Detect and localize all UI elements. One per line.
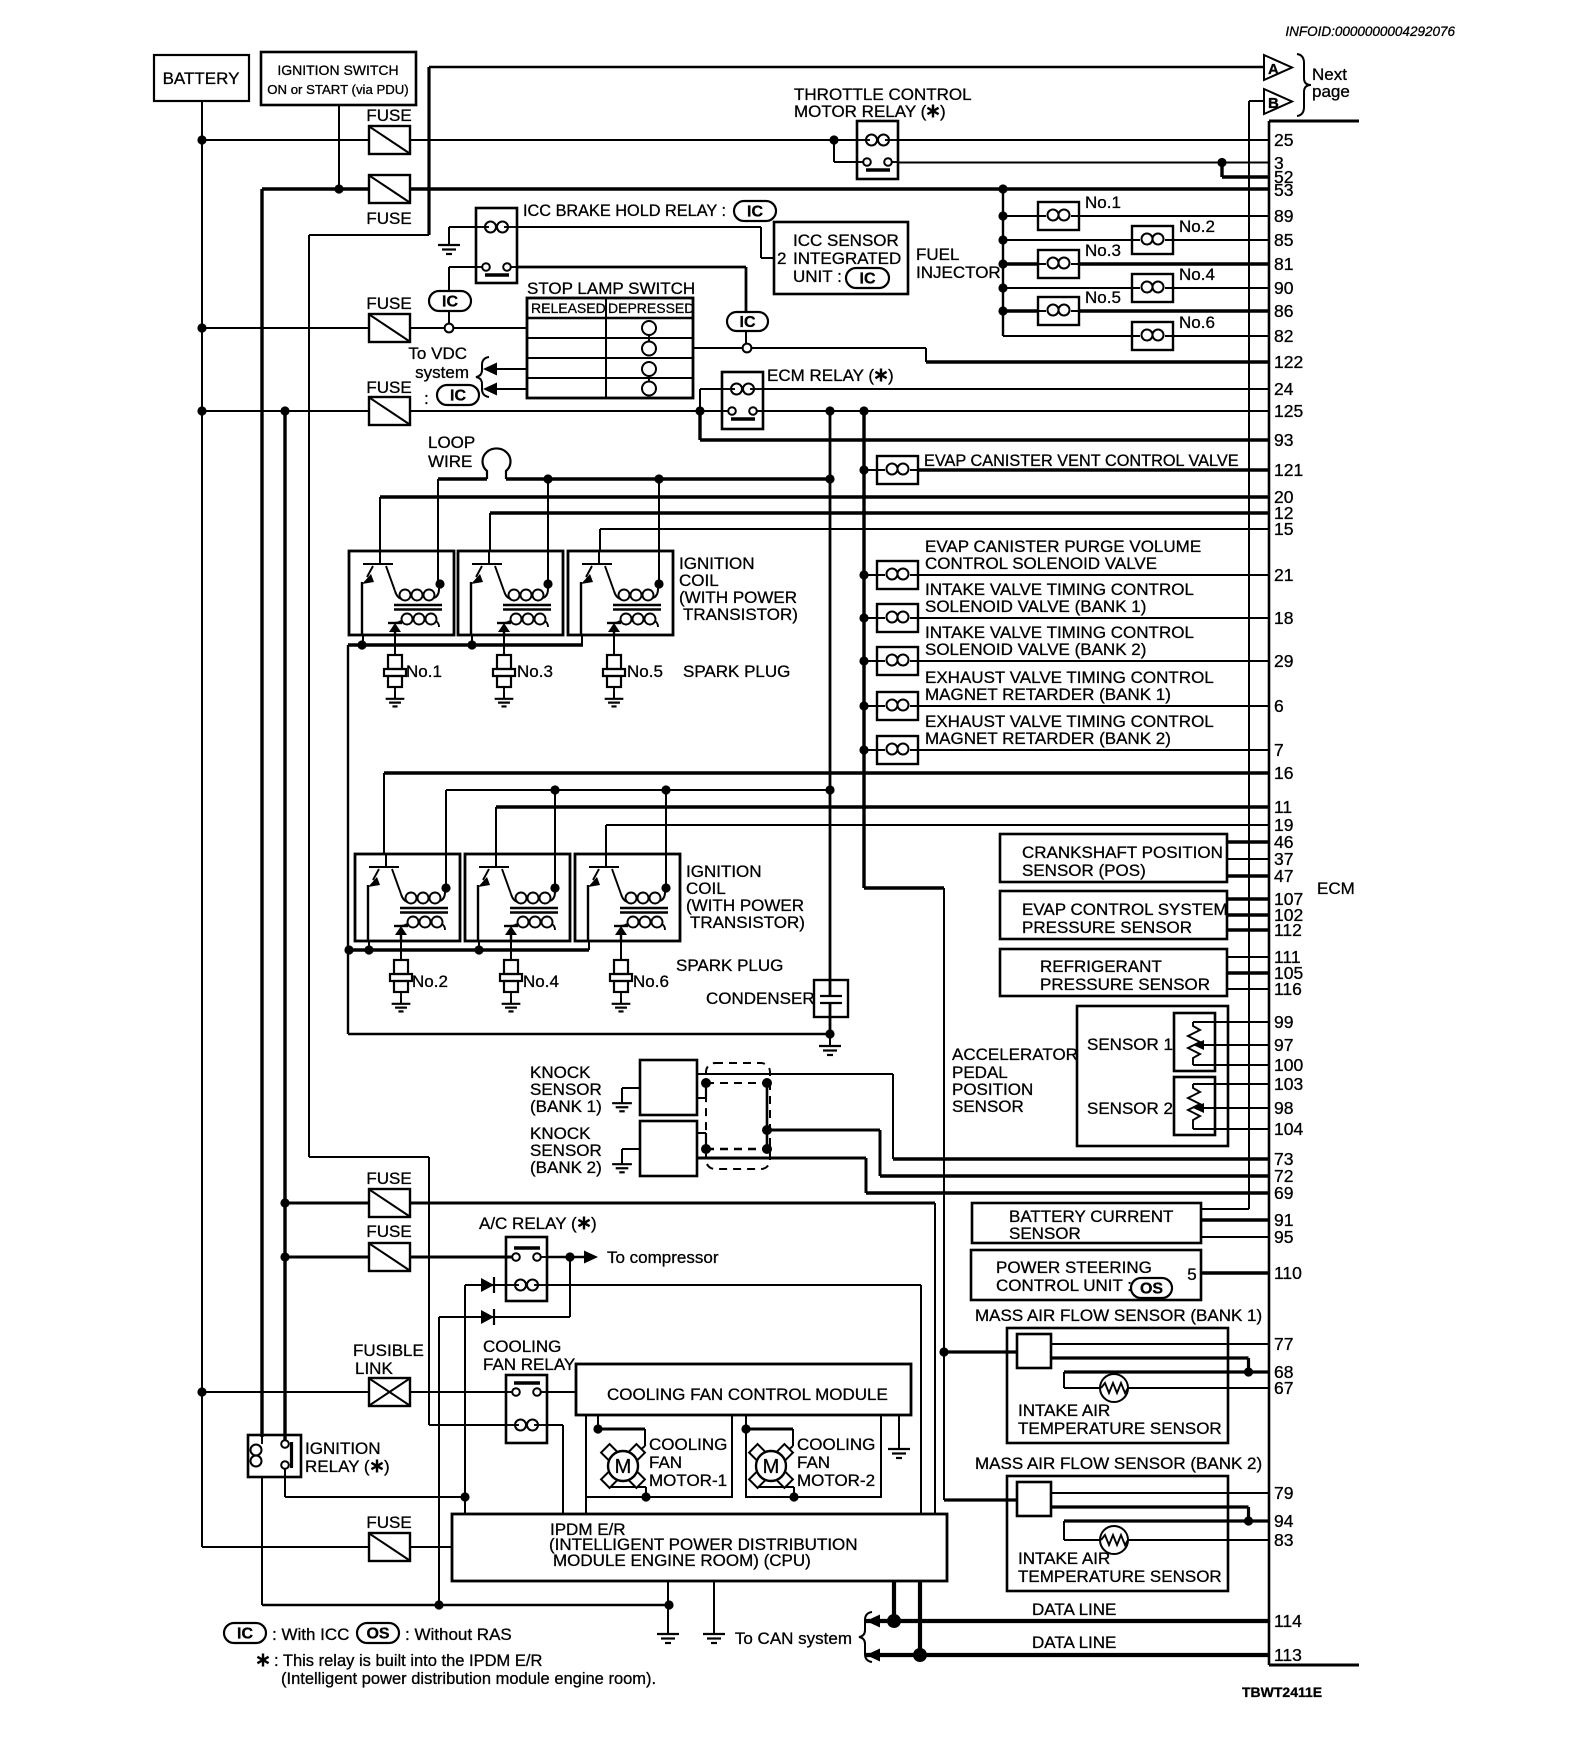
svg-text:93: 93 [1274, 430, 1293, 450]
svg-text:INTEGRATED: INTEGRATED [793, 249, 901, 268]
svg-text:7: 7 [1274, 740, 1284, 760]
svg-text:IC: IC [740, 314, 756, 331]
svg-text:SENSOR (POS): SENSOR (POS) [1022, 861, 1146, 880]
svg-text:MASS AIR FLOW SENSOR (BANK 1): MASS AIR FLOW SENSOR (BANK 1) [975, 1306, 1262, 1325]
svg-text:INTAKE AIR: INTAKE AIR [1018, 1549, 1110, 1568]
svg-text:85: 85 [1274, 230, 1293, 250]
svg-text:No.1: No.1 [1085, 193, 1121, 212]
svg-text:STOP LAMP SWITCH: STOP LAMP SWITCH [527, 279, 695, 298]
svg-text:113: 113 [1274, 1645, 1302, 1665]
svg-text:SOLENOID VALVE (BANK 2): SOLENOID VALVE (BANK 2) [925, 640, 1146, 659]
svg-text:6: 6 [1274, 696, 1284, 716]
svg-text:CONTROL SOLENOID VALVE: CONTROL SOLENOID VALVE [925, 554, 1157, 573]
svg-text:MASS AIR FLOW SENSOR (BANK 2): MASS AIR FLOW SENSOR (BANK 2) [975, 1454, 1262, 1473]
svg-text:99: 99 [1274, 1012, 1293, 1032]
svg-text:LOOP: LOOP [428, 433, 475, 452]
svg-text:EVAP CONTROL SYSTEM: EVAP CONTROL SYSTEM [1022, 900, 1228, 919]
svg-text:system: system [415, 363, 469, 382]
svg-text:IGNITION: IGNITION [305, 1439, 381, 1458]
svg-text:PRESSURE SENSOR: PRESSURE SENSOR [1022, 918, 1192, 937]
svg-text:15: 15 [1274, 519, 1293, 539]
svg-text:No.3: No.3 [517, 662, 553, 681]
svg-text:SPARK PLUG: SPARK PLUG [676, 956, 783, 975]
svg-text:COOLING FAN CONTROL MODULE: COOLING FAN CONTROL MODULE [607, 1385, 888, 1404]
svg-text:BATTERY: BATTERY [163, 69, 240, 88]
svg-text:FUSE: FUSE [366, 1222, 411, 1241]
svg-text:98: 98 [1274, 1098, 1293, 1118]
svg-text:100: 100 [1274, 1055, 1303, 1075]
svg-text:CRANKSHAFT POSITION: CRANKSHAFT POSITION [1022, 843, 1223, 862]
svg-text:ICC BRAKE HOLD RELAY :: ICC BRAKE HOLD RELAY : [523, 202, 726, 220]
svg-text:116: 116 [1274, 979, 1302, 999]
svg-text:IC: IC [450, 388, 466, 405]
svg-text:FUSE: FUSE [366, 209, 411, 228]
svg-text:MAGNET RETARDER (BANK 2): MAGNET RETARDER (BANK 2) [925, 729, 1171, 748]
svg-text:MAGNET RETARDER (BANK 1): MAGNET RETARDER (BANK 1) [925, 685, 1171, 704]
svg-text:To VDC: To VDC [408, 344, 467, 363]
svg-text:DEPRESSED: DEPRESSED [608, 300, 694, 316]
svg-text:FUSE: FUSE [366, 294, 411, 313]
svg-text:90: 90 [1274, 278, 1294, 298]
svg-text:INFOID:0000000004292076: INFOID:0000000004292076 [1285, 24, 1455, 39]
svg-text:86: 86 [1274, 301, 1293, 321]
svg-text:A/C RELAY (: A/C RELAY ( [479, 1214, 577, 1233]
svg-text:122: 122 [1274, 352, 1303, 372]
svg-text:ON or START (via PDU): ON or START (via PDU) [267, 82, 408, 97]
svg-text:112: 112 [1274, 920, 1302, 940]
svg-text::: : [424, 389, 429, 408]
svg-text:83: 83 [1274, 1530, 1293, 1550]
svg-text:IC: IC [442, 294, 458, 311]
svg-text:WIRE: WIRE [428, 452, 472, 471]
svg-text:94: 94 [1274, 1511, 1294, 1531]
svg-text:79: 79 [1274, 1483, 1293, 1503]
svg-text:A: A [1268, 61, 1279, 78]
svg-text:53: 53 [1274, 180, 1293, 200]
svg-text:): ) [888, 366, 894, 385]
svg-text:No.2: No.2 [1179, 217, 1215, 236]
svg-text:TBWT2411E: TBWT2411E [1242, 1684, 1322, 1700]
svg-text:DATA LINE: DATA LINE [1032, 1600, 1116, 1619]
svg-text:ECM RELAY (: ECM RELAY ( [767, 366, 874, 385]
svg-text:M: M [615, 1456, 632, 1478]
svg-text:IC: IC [237, 1626, 253, 1643]
svg-text:POWER STEERING: POWER STEERING [996, 1258, 1152, 1277]
svg-text:EVAP CANISTER VENT CONTROL VAL: EVAP CANISTER VENT CONTROL VALVE [924, 452, 1239, 470]
svg-text:(Intelligent power distributio: (Intelligent power distribution module e… [281, 1670, 656, 1688]
svg-text:16: 16 [1274, 763, 1293, 783]
svg-text:47: 47 [1274, 866, 1293, 886]
svg-text:No.1: No.1 [406, 662, 442, 681]
svg-text:: This relay is built into the: : This relay is built into the IPDM E/R [274, 1652, 542, 1670]
svg-text:77: 77 [1274, 1334, 1293, 1354]
svg-text:SENSOR: SENSOR [952, 1097, 1024, 1116]
svg-text:(BANK 2): (BANK 2) [530, 1158, 602, 1177]
svg-text:No.4: No.4 [523, 972, 559, 991]
svg-text:FUSIBLE: FUSIBLE [353, 1341, 424, 1360]
svg-text:To compressor: To compressor [607, 1248, 719, 1267]
svg-text:82: 82 [1274, 326, 1293, 346]
svg-text:COOLING: COOLING [649, 1435, 727, 1454]
svg-text:TEMPERATURE SENSOR: TEMPERATURE SENSOR [1018, 1419, 1222, 1438]
svg-text:IC: IC [747, 204, 763, 221]
svg-text:DATA LINE: DATA LINE [1032, 1633, 1116, 1652]
svg-text:114: 114 [1274, 1611, 1302, 1631]
svg-text:FUSE: FUSE [366, 378, 411, 397]
svg-text:REFRIGERANT: REFRIGERANT [1040, 957, 1162, 976]
svg-text:INJECTOR: INJECTOR [916, 263, 1001, 282]
svg-text:COOLING: COOLING [483, 1337, 561, 1356]
svg-text:No.5: No.5 [1085, 288, 1121, 307]
svg-text:IGNITION SWITCH: IGNITION SWITCH [277, 62, 398, 78]
svg-text:IC: IC [860, 271, 876, 288]
svg-text:No.6: No.6 [1179, 313, 1215, 332]
svg-text:No.4: No.4 [1179, 265, 1215, 284]
svg-text:SPARK PLUG: SPARK PLUG [683, 662, 790, 681]
svg-text:125: 125 [1274, 401, 1303, 421]
svg-text:COOLING: COOLING [797, 1435, 875, 1454]
svg-text:FUSE: FUSE [366, 1513, 411, 1532]
svg-text:SENSOR 1: SENSOR 1 [1087, 1035, 1173, 1054]
svg-text:SENSOR 2: SENSOR 2 [1087, 1099, 1173, 1118]
svg-text:ACCELERATOR: ACCELERATOR [952, 1045, 1078, 1064]
svg-text:110: 110 [1274, 1263, 1302, 1283]
svg-text:MODULE ENGINE ROOM) (CPU): MODULE ENGINE ROOM) (CPU) [553, 1551, 811, 1570]
svg-text:ICC SENSOR: ICC SENSOR [793, 231, 899, 250]
svg-text:UNIT :: UNIT : [793, 267, 842, 286]
svg-text:FAN: FAN [797, 1453, 830, 1472]
svg-text:TRANSISTOR): TRANSISTOR) [683, 605, 798, 624]
svg-text:B: B [1268, 95, 1279, 112]
svg-text:RELEASED: RELEASED [531, 300, 606, 316]
svg-text:29: 29 [1274, 651, 1293, 671]
svg-text:TRANSISTOR): TRANSISTOR) [690, 913, 805, 932]
svg-text:5: 5 [1187, 1265, 1196, 1284]
svg-text:RELAY (: RELAY ( [305, 1457, 370, 1476]
svg-text:21: 21 [1274, 565, 1293, 585]
svg-text:FAN: FAN [649, 1453, 682, 1472]
svg-text:): ) [384, 1457, 390, 1476]
svg-text:95: 95 [1274, 1227, 1293, 1247]
svg-text:LINK: LINK [355, 1359, 393, 1378]
svg-text:No.6: No.6 [633, 972, 669, 991]
svg-text:CONDENSER: CONDENSER [706, 989, 815, 1008]
svg-text:: Without RAS: : Without RAS [405, 1625, 512, 1644]
svg-text:104: 104 [1274, 1119, 1303, 1139]
svg-text:): ) [940, 102, 946, 121]
svg-text:(BANK 1): (BANK 1) [530, 1097, 602, 1116]
svg-text:M: M [763, 1456, 780, 1478]
svg-text:No.5: No.5 [627, 662, 663, 681]
svg-text:No.2: No.2 [412, 972, 448, 991]
svg-text:121: 121 [1274, 460, 1303, 480]
svg-text:67: 67 [1274, 1378, 1293, 1398]
svg-text:FAN RELAY: FAN RELAY [483, 1355, 575, 1374]
svg-text:): ) [591, 1214, 597, 1233]
svg-text:2: 2 [777, 249, 786, 268]
svg-text:TEMPERATURE SENSOR: TEMPERATURE SENSOR [1018, 1567, 1222, 1586]
svg-text:INTAKE AIR: INTAKE AIR [1018, 1401, 1110, 1420]
svg-text:PRESSURE SENSOR: PRESSURE SENSOR [1040, 975, 1210, 994]
svg-text:97: 97 [1274, 1035, 1293, 1055]
svg-text:SENSOR: SENSOR [1009, 1224, 1081, 1243]
svg-text:FUSE: FUSE [366, 106, 411, 125]
svg-text:81: 81 [1274, 254, 1293, 274]
svg-text:SOLENOID VALVE (BANK 1): SOLENOID VALVE (BANK 1) [925, 597, 1146, 616]
svg-text:FUSE: FUSE [366, 1169, 411, 1188]
svg-text:MOTOR-2: MOTOR-2 [797, 1471, 875, 1490]
svg-text:No.3: No.3 [1085, 241, 1121, 260]
svg-text:ECM: ECM [1317, 879, 1355, 898]
svg-text:MOTOR RELAY (: MOTOR RELAY ( [794, 102, 927, 121]
svg-text:89: 89 [1274, 206, 1293, 226]
svg-text:103: 103 [1274, 1074, 1303, 1094]
svg-text:page: page [1312, 82, 1350, 101]
svg-text:24: 24 [1274, 379, 1294, 399]
svg-text:25: 25 [1274, 130, 1293, 150]
svg-text:11: 11 [1274, 797, 1292, 817]
svg-text:OS: OS [366, 1626, 389, 1643]
svg-text:OS: OS [1140, 1281, 1163, 1298]
svg-text:: With ICC: : With ICC [272, 1625, 349, 1644]
svg-text:CONTROL UNIT :: CONTROL UNIT : [996, 1276, 1132, 1295]
svg-text:FUEL: FUEL [916, 245, 959, 264]
svg-text:18: 18 [1274, 608, 1293, 628]
svg-text:69: 69 [1274, 1183, 1293, 1203]
svg-text:MOTOR-1: MOTOR-1 [649, 1471, 727, 1490]
svg-text:To CAN system: To CAN system [735, 1629, 852, 1648]
